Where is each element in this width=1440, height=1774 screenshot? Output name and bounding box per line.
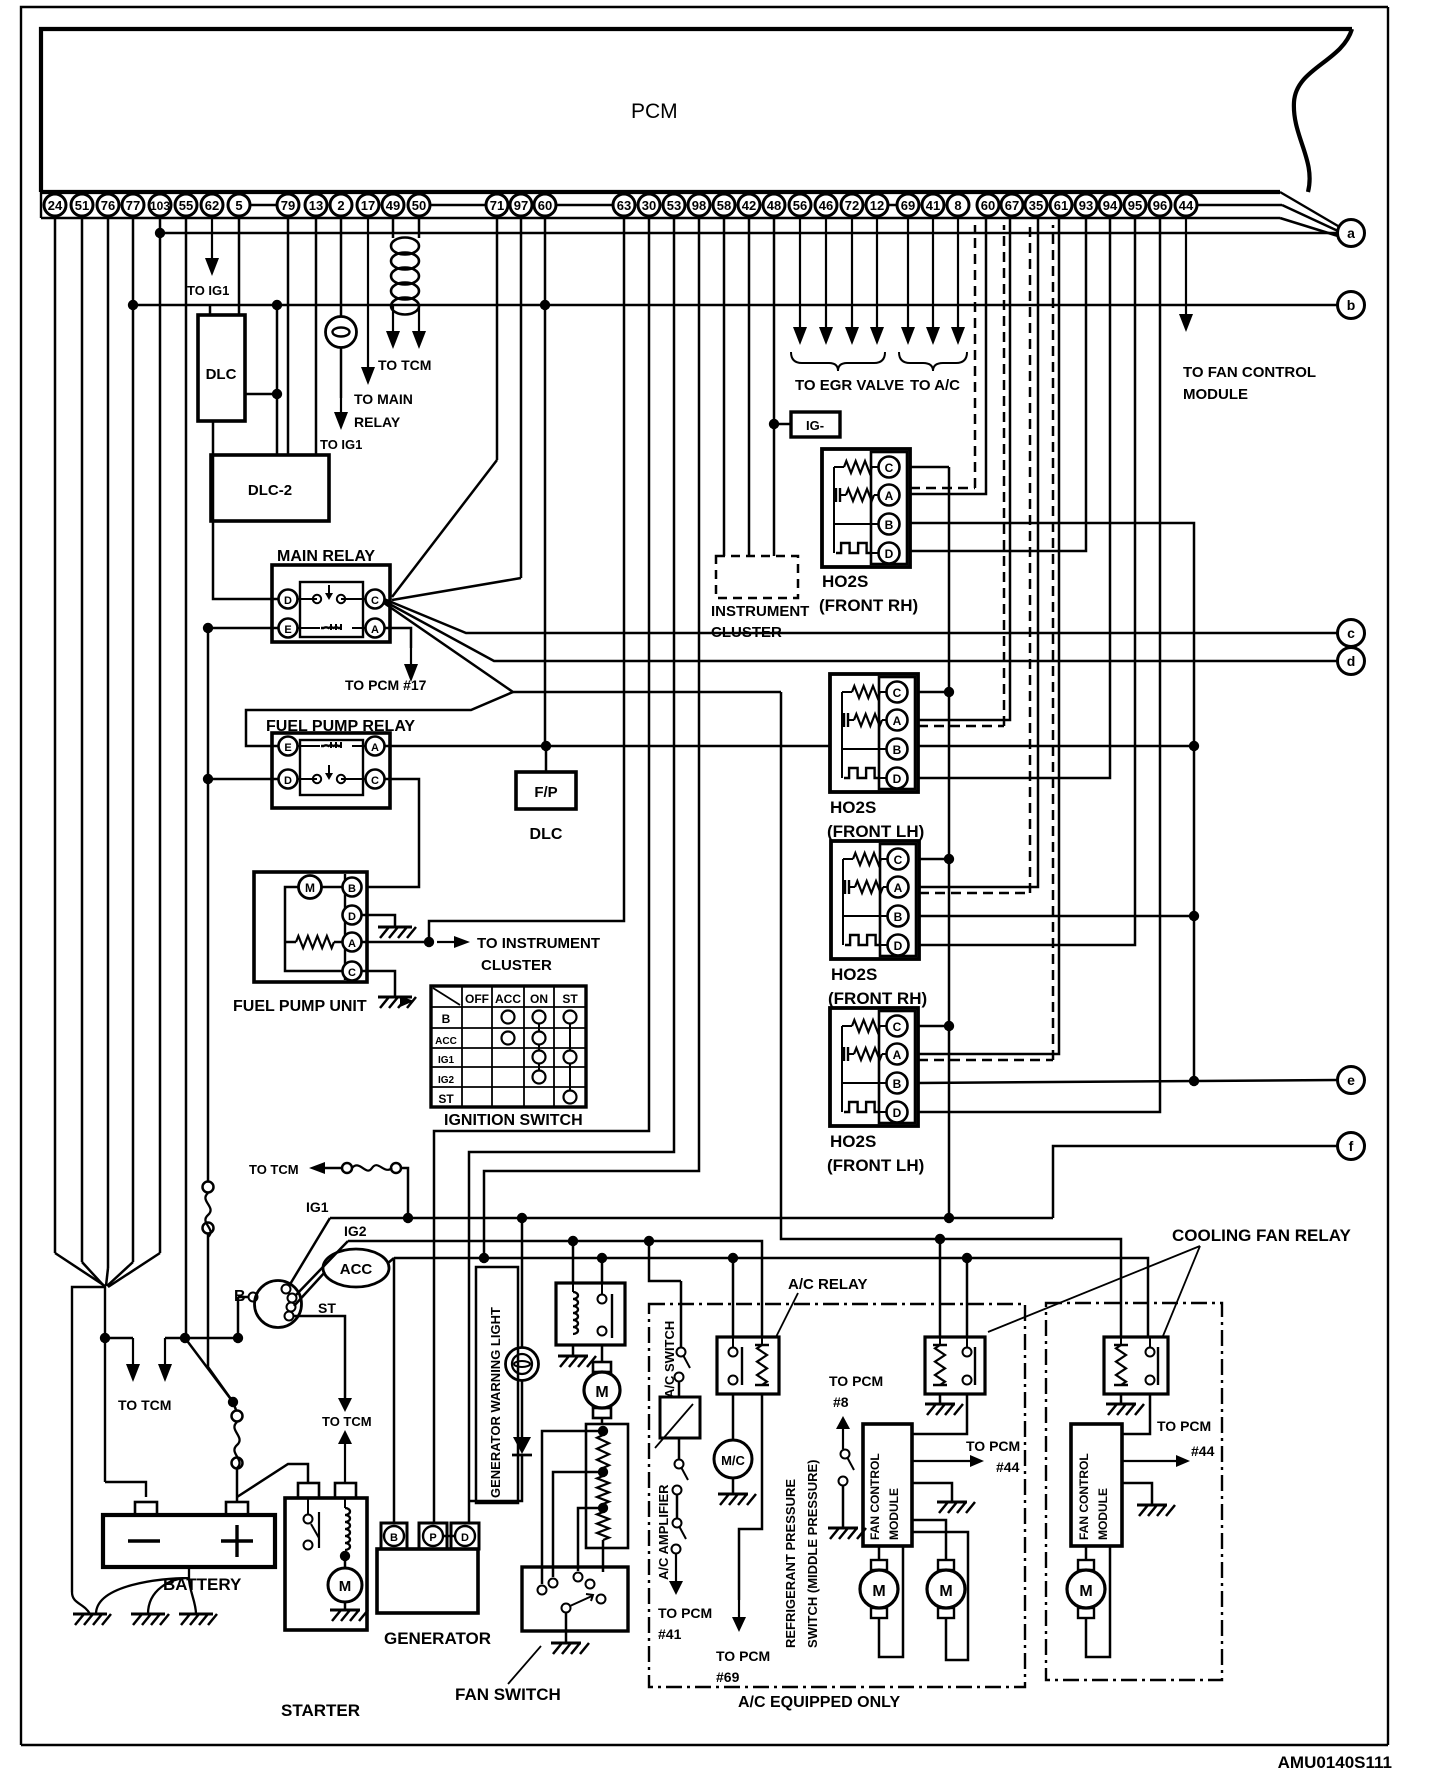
svg-text:93: 93 (1079, 198, 1093, 213)
svg-text:(FRONT LH): (FRONT LH) (827, 1156, 924, 1175)
HO2S 2 front LH heater resistor (843, 713, 845, 727)
svg-text:44: 44 (1179, 198, 1194, 213)
HO2S 1 front RH heater resistor (835, 488, 837, 502)
wire DLC to main relay D (213, 421, 279, 599)
fuel pump relay coil (297, 745, 320, 747)
module2 output TO PCM 44 (1122, 1460, 1178, 1462)
bus a wire (160, 232, 1337, 235)
svg-text:GENERATOR: GENERATOR (384, 1629, 491, 1648)
svg-text:M: M (1079, 1583, 1092, 1600)
junction battery negative feed (100, 1333, 110, 1343)
cooling fan relay 2 coil (939, 1337, 941, 1345)
fusible link 2 (228, 1397, 238, 1407)
HO2S 1 front RH pin A (879, 485, 900, 506)
svg-text:M: M (339, 1578, 352, 1595)
heater fan relay coil (572, 1283, 574, 1292)
AC relay contact (729, 1348, 738, 1357)
svg-text:TO MAIN: TO MAIN (354, 391, 413, 407)
wire pin98 to ACC bus (484, 218, 699, 1258)
blower motor M (593, 1362, 611, 1372)
svg-text:IG2: IG2 (438, 1075, 455, 1086)
wire diode to generator D (469, 1455, 522, 1501)
wire pin76 ground group (107, 218, 110, 1268)
pin 96 (1149, 194, 1171, 216)
svg-text:97: 97 (514, 198, 528, 213)
pin 69 (897, 194, 919, 216)
pin 49 (382, 194, 404, 216)
pin 8 (947, 194, 969, 216)
svg-text:DLC: DLC (206, 366, 237, 383)
MC clutch ground (732, 1478, 735, 1494)
pin 63 (613, 194, 635, 216)
bus IG2 wire (348, 1241, 762, 1337)
svg-text:FAN CONTROL: FAN CONTROL (1077, 1453, 1091, 1540)
wire ignition IG2 feed (295, 1241, 348, 1296)
pin 61 (1050, 194, 1072, 216)
svg-text:CLUSTER: CLUSTER (481, 957, 552, 974)
wire pin51 ground group (81, 218, 84, 1262)
wire HO2S4 A dashed variant (918, 1059, 1053, 1062)
svg-text:72: 72 (845, 198, 859, 213)
wire relay3 to fan control module 2 (1122, 1394, 1150, 1434)
svg-text:B: B (885, 518, 894, 532)
pin 72 (841, 194, 863, 216)
pin 94 (1099, 194, 1121, 216)
svg-text:MODULE: MODULE (1096, 1488, 1110, 1540)
wire warning light to diode (521, 1381, 524, 1437)
pin 24 (44, 194, 66, 216)
wire pin48 to instrument cluster (773, 218, 776, 556)
svg-text:B: B (390, 1532, 398, 1544)
HO2S 2 front LH pin B (887, 739, 908, 760)
svg-text:C: C (893, 686, 902, 700)
wire pin5 to DLC (238, 218, 241, 315)
svg-text:TO EGR VALVE: TO EGR VALVE (795, 377, 904, 394)
net ring b (1338, 292, 1365, 319)
ignition switch table (431, 986, 586, 1107)
wire HO2S4 C junction (918, 1025, 949, 1028)
svg-text:D: D (348, 911, 356, 923)
svg-text:PCM: PCM (631, 100, 678, 123)
wire pin55 to battery feed (185, 218, 188, 1336)
svg-text:MODULE: MODULE (887, 1488, 901, 1540)
HO2S 2 front LH internal rail (842, 692, 887, 749)
fan motor 2 (912, 1520, 946, 1560)
wire pin53 to generator D (469, 218, 674, 1523)
generator terminal D (451, 1523, 479, 1549)
pin 55 (175, 194, 197, 216)
svg-text:ST: ST (438, 1092, 454, 1106)
svg-text:ACC: ACC (340, 1261, 373, 1278)
svg-text:TO IG1: TO IG1 (187, 283, 229, 298)
svg-text:76: 76 (101, 198, 115, 213)
svg-text:ACC: ACC (495, 992, 521, 1006)
svg-text:M: M (872, 1583, 885, 1600)
arrow starter feed TO TCM (344, 1442, 346, 1483)
HO2S sensor box 3 front RH (831, 841, 919, 959)
svg-text:TO TCM: TO TCM (378, 357, 431, 373)
wire b-bus to DLC-2 (276, 305, 279, 455)
svg-text:46: 46 (819, 198, 833, 213)
wire HO2S3 A dashed variant (919, 892, 1030, 895)
wire AC relay to PCM 69 (739, 1394, 762, 1600)
svg-text:E: E (284, 624, 291, 636)
pin 42 (738, 194, 760, 216)
wire DLC b-bus stub (209, 305, 212, 315)
pin 77 (122, 194, 144, 216)
pin 50 (408, 194, 430, 216)
svg-text:REFRIGERANT PRESSURE: REFRIGERANT PRESSURE (783, 1479, 798, 1648)
svg-text:A/C EQUIPPED ONLY: A/C EQUIPPED ONLY (738, 1694, 900, 1711)
svg-text:48: 48 (767, 198, 781, 213)
svg-text:IG2: IG2 (344, 1223, 367, 1239)
svg-text:INSTRUMENT: INSTRUMENT (711, 603, 809, 620)
svg-text:d: d (1347, 653, 1356, 669)
svg-text:C: C (348, 967, 356, 979)
svg-text:63: 63 (617, 198, 631, 213)
svg-text:TO PCM: TO PCM (966, 1438, 1020, 1454)
bus IG2 right section from main relay (781, 692, 1121, 1337)
pin 97 (510, 194, 532, 216)
cooling fan relay 2 box (925, 1337, 985, 1394)
wire ACC to fan relay contact (601, 1258, 604, 1283)
pin 53 (663, 194, 685, 216)
pin 62 (201, 194, 223, 216)
arrow pin62 TO IG1 (211, 218, 213, 260)
svg-text:17: 17 (361, 198, 375, 213)
wire ACC to AC relay (732, 1258, 735, 1337)
wire HO2S1 C to common (910, 466, 949, 469)
svg-text:95: 95 (1128, 198, 1142, 213)
svg-text:HO2S: HO2S (830, 798, 876, 817)
HO2S 4 front LH pin A (887, 1044, 908, 1065)
wire main relay E (208, 627, 279, 630)
wire battery positive to starter (237, 1464, 308, 1497)
HO2S sensor box 4 front LH (830, 1008, 918, 1126)
svg-text:DLC-2: DLC-2 (248, 482, 292, 499)
svg-text:TO FAN CONTROL: TO FAN CONTROL (1183, 364, 1316, 381)
HO2S 3 front RH pin C (888, 849, 909, 870)
resistor tap wires to fan switch (542, 1431, 603, 1584)
generator warning light label box (476, 1267, 518, 1503)
ground battery 2 (131, 1613, 165, 1616)
pin 98 (688, 194, 710, 216)
wire HO2S1 B to B-chain (910, 523, 1194, 1080)
svg-text:A: A (371, 742, 379, 754)
HO2S 4 front LH internal rail (842, 1026, 887, 1083)
svg-text:(FRONT LH): (FRONT LH) (827, 822, 924, 841)
wire x208 rail (207, 628, 210, 1172)
ground funnel convergence (55, 1253, 105, 1286)
svg-text:FAN SWITCH: FAN SWITCH (455, 1685, 561, 1704)
pin 13 (305, 194, 327, 216)
fan control module 1 box (863, 1424, 912, 1546)
wire HO2S3 A solid to pin 35 (919, 218, 1038, 887)
HO2S 1 front RH pin D (879, 543, 900, 564)
svg-text:GENERATOR WARNING LIGHT: GENERATOR WARNING LIGHT (488, 1307, 503, 1498)
svg-text:B: B (442, 1012, 451, 1026)
fan switch ground (565, 1613, 568, 1643)
svg-text:12: 12 (870, 198, 884, 213)
AC relay coil (761, 1337, 763, 1345)
fuel pump unit internal wiring (285, 887, 343, 971)
wire pin42 to instrument cluster (748, 218, 751, 556)
heater fan relay contact (598, 1295, 607, 1304)
wire pin103 ground group (159, 233, 162, 1253)
battery terminals (135, 1502, 157, 1515)
svg-text:TO TCM: TO TCM (322, 1414, 372, 1429)
wire main relay A to TO PCM 17 arrow (384, 628, 411, 648)
fan motor 1 (878, 1546, 881, 1560)
HO2S 4 front LH pin D (887, 1102, 908, 1123)
cooling fan relay 3 box (1104, 1337, 1168, 1394)
pin 48 (763, 194, 785, 216)
HO2S 1 front RH pin C (879, 457, 900, 478)
svg-text:P: P (429, 1532, 436, 1544)
svg-text:8: 8 (954, 198, 961, 213)
fan control module 2 box (1071, 1424, 1122, 1546)
wire HO2S2 D to pin 94 (918, 218, 1110, 778)
HO2S 3 front RH sensing element resistor (843, 858, 853, 860)
svg-text:HO2S: HO2S (830, 1132, 876, 1151)
svg-text:50: 50 (412, 198, 426, 213)
svg-text:DLC: DLC (530, 826, 563, 843)
wire y1338 to ignition switch B (185, 1337, 238, 1340)
blower resistor chain (598, 1426, 608, 1436)
svg-text:41: 41 (926, 198, 940, 213)
net ring f (1338, 1133, 1365, 1160)
wire generator B feed (393, 1258, 396, 1523)
svg-text:FAN CONTROL: FAN CONTROL (868, 1453, 882, 1540)
HO2S 3 front RH heater resistor (844, 880, 846, 894)
pin 95 (1124, 194, 1146, 216)
cooling fan relay 3 coil (1120, 1337, 1122, 1345)
module1 output TO PCM 44 (912, 1460, 972, 1462)
pin 71 (486, 194, 508, 216)
fuel pump relay box (272, 733, 390, 808)
pin 56 (789, 194, 811, 216)
HO2S 3 front RH pin B (888, 906, 909, 927)
svg-text:#44: #44 (996, 1459, 1020, 1475)
connector strip taper to ring a (1280, 192, 1338, 226)
svg-text:TO A/C: TO A/C (910, 377, 960, 394)
HO2S 3 front RH pin D (888, 935, 909, 956)
svg-text:c: c (1347, 625, 1355, 641)
fuel pump relay pin A (366, 737, 385, 756)
generator terminal P (419, 1523, 447, 1549)
HO2S 1 front RH pin B (879, 514, 900, 535)
pin 30 (638, 194, 660, 216)
HO2S 2 front LH pin D (887, 768, 908, 789)
arrows to EGR valve pins 56 46 72 12 (799, 218, 801, 329)
wire fuel pump relay A bus (384, 745, 830, 748)
svg-text:#69: #69 (716, 1669, 740, 1685)
pin 41 (922, 194, 944, 216)
PCM box (41, 29, 1352, 192)
DLC-2 box (211, 455, 329, 521)
svg-text:b: b (1347, 297, 1356, 313)
HO2S C common wire down (948, 467, 951, 1218)
svg-text:IG1: IG1 (306, 1199, 329, 1215)
pin 2 (330, 194, 352, 216)
main relay pin A (366, 619, 385, 638)
svg-text:M: M (939, 1583, 952, 1600)
svg-text:ACC: ACC (435, 1036, 457, 1047)
svg-text:D: D (893, 772, 902, 786)
HO2S 3 front RH signal squarewave (842, 916, 844, 945)
wire fuel pump unit A to pin63 (429, 218, 624, 942)
svg-text:(FRONT RH): (FRONT RH) (828, 989, 927, 1008)
svg-text:M: M (305, 881, 315, 895)
svg-text:A: A (893, 1048, 902, 1062)
ignition switch rotary (255, 1281, 302, 1328)
wire main relay C to fan node (384, 603, 781, 692)
svg-text:STARTER: STARTER (281, 1701, 360, 1720)
PCM pin connector strip (41, 217, 1280, 219)
wire relay to blower motor (601, 1345, 604, 1362)
wire pin97 to main relay C (520, 218, 523, 578)
svg-text:MODULE: MODULE (1183, 386, 1248, 403)
HO2S 3 front RH pin A (888, 877, 909, 898)
svg-text:2: 2 (337, 198, 344, 213)
svg-text:f: f (1349, 1138, 1354, 1154)
brace AC (899, 352, 967, 371)
cooling fan relay pointer lines (988, 1246, 1200, 1332)
fusible link 1 (207, 1172, 210, 1182)
HO2S sensor box 1 front RH (822, 449, 910, 567)
svg-text:96: 96 (1153, 198, 1167, 213)
svg-text:IG-: IG- (806, 418, 824, 433)
pin 46 (815, 194, 837, 216)
svg-text:53: 53 (667, 198, 681, 213)
svg-text:TO PCM: TO PCM (658, 1605, 712, 1621)
cooling fan dash-dot box 2 (1046, 1303, 1222, 1680)
bus f wire (1053, 1146, 1337, 1218)
arrows to A/C pins 69 41 8 (907, 218, 909, 329)
DLC box (198, 315, 245, 421)
starter ground (344, 1602, 347, 1610)
svg-text:TO IG1: TO IG1 (320, 437, 362, 452)
starter terminals (298, 1483, 319, 1498)
svg-text:ST: ST (562, 992, 578, 1006)
svg-text:D: D (284, 775, 292, 787)
net ring a (1338, 220, 1365, 247)
svg-text:A: A (885, 489, 894, 503)
battery plus symbol (221, 1539, 253, 1542)
wire fuel pump relay D (208, 778, 279, 781)
svg-text:A/C RELAY: A/C RELAY (788, 1276, 867, 1293)
svg-text:HO2S: HO2S (831, 965, 877, 984)
svg-text:E: E (284, 742, 291, 754)
wire fan node to fuel pump relay E (246, 692, 513, 746)
svg-text:SWITCH (MIDDLE PRESSURE): SWITCH (MIDDLE PRESSURE) (805, 1460, 820, 1649)
svg-text:13: 13 (309, 198, 323, 213)
module2 ground output (1122, 1483, 1152, 1505)
arrow pin2 TO IG1 (340, 348, 343, 398)
wire ignition ST (293, 1316, 345, 1398)
wire HO2S2 C junction (918, 691, 949, 694)
HO2S 2 front LH pin C (887, 682, 908, 703)
svg-text:TO INSTRUMENT: TO INSTRUMENT (477, 935, 600, 952)
HO2S 4 front LH heater resistor (843, 1047, 845, 1061)
fuel pump unit D ground (361, 915, 395, 927)
svg-text:C: C (885, 461, 894, 475)
svg-text:49: 49 (386, 198, 400, 213)
svg-text:A: A (371, 624, 379, 636)
HO2S 4 front LH pin B (887, 1073, 908, 1094)
arrow TO PCM 69 (738, 1600, 740, 1619)
svg-text:M/C: M/C (721, 1453, 745, 1468)
arrow pin17 TO MAIN RELAY (367, 218, 369, 369)
svg-text:58: 58 (717, 198, 731, 213)
svg-text:TO TCM: TO TCM (249, 1162, 299, 1177)
starter box (285, 1498, 367, 1630)
module1 ground output (912, 1483, 952, 1502)
A/C amplifier box (660, 1397, 700, 1438)
fuel pump unit pin C (343, 962, 362, 981)
wire HO2S3 D to pin 95 (919, 218, 1135, 945)
net ring c (1338, 620, 1365, 647)
ignition table pointer arrow (400, 996, 414, 1007)
pin 103 (149, 194, 171, 216)
svg-text:77: 77 (126, 198, 140, 213)
svg-text:M: M (595, 1384, 608, 1401)
svg-text:TO PCM #17: TO PCM #17 (345, 677, 427, 693)
svg-text:CLUSTER: CLUSTER (711, 624, 782, 641)
arrow pin50 TO TCM (418, 218, 421, 238)
fuel pump relay contact (297, 778, 317, 780)
HO2S 1 front RH signal squarewave (833, 524, 835, 553)
battery ground arcs (96, 1567, 189, 1614)
bus e wire from HO2S4 B (918, 1080, 1337, 1083)
relay2 ground (939, 1394, 942, 1404)
pin 79 (277, 194, 299, 216)
wire ACC to relay2 contact (966, 1258, 969, 1337)
pin 93 (1075, 194, 1097, 216)
svg-text:A/C SWITCH: A/C SWITCH (662, 1321, 677, 1398)
svg-text:#44: #44 (1191, 1443, 1215, 1459)
svg-text:#41: #41 (658, 1626, 682, 1642)
wire HO2S2 A dashed variant (918, 725, 1004, 728)
svg-text:24: 24 (48, 198, 63, 213)
svg-text:B: B (348, 883, 356, 895)
battery box (103, 1515, 275, 1567)
main relay pin C (366, 590, 385, 609)
battery minus symbol (128, 1539, 160, 1542)
wire pin2 with noise filter (340, 218, 343, 317)
fan motor 3 (1085, 1546, 1088, 1560)
HO2S 3 front RH internal rail (843, 859, 888, 916)
AC equipped dash-dot box (649, 1304, 1025, 1687)
ground battery 3 (179, 1613, 213, 1616)
fuel pump relay pin C (366, 770, 385, 789)
starter solenoid coil (344, 1498, 346, 1508)
main relay box (272, 565, 390, 642)
svg-text:MAIN RELAY: MAIN RELAY (277, 548, 375, 565)
wire HO2S1 D to pin 93 (910, 218, 1086, 551)
svg-text:D: D (893, 1106, 902, 1120)
wire pin13 to DLC-2 (315, 218, 318, 455)
wire AC relay to MC clutch (732, 1394, 735, 1440)
svg-text:60: 60 (981, 198, 995, 213)
wire pin79 to DLC-2 (287, 218, 290, 455)
svg-text:B: B (893, 1077, 902, 1091)
wire HO2S3 B to chain (919, 915, 1194, 918)
svg-text:AMU0140S111: AMU0140S111 (1278, 1753, 1392, 1772)
pin 60 (534, 194, 556, 216)
fan switch contacts (538, 1586, 547, 1595)
wire HO2S2 A solid to pin 67 (918, 218, 1010, 720)
